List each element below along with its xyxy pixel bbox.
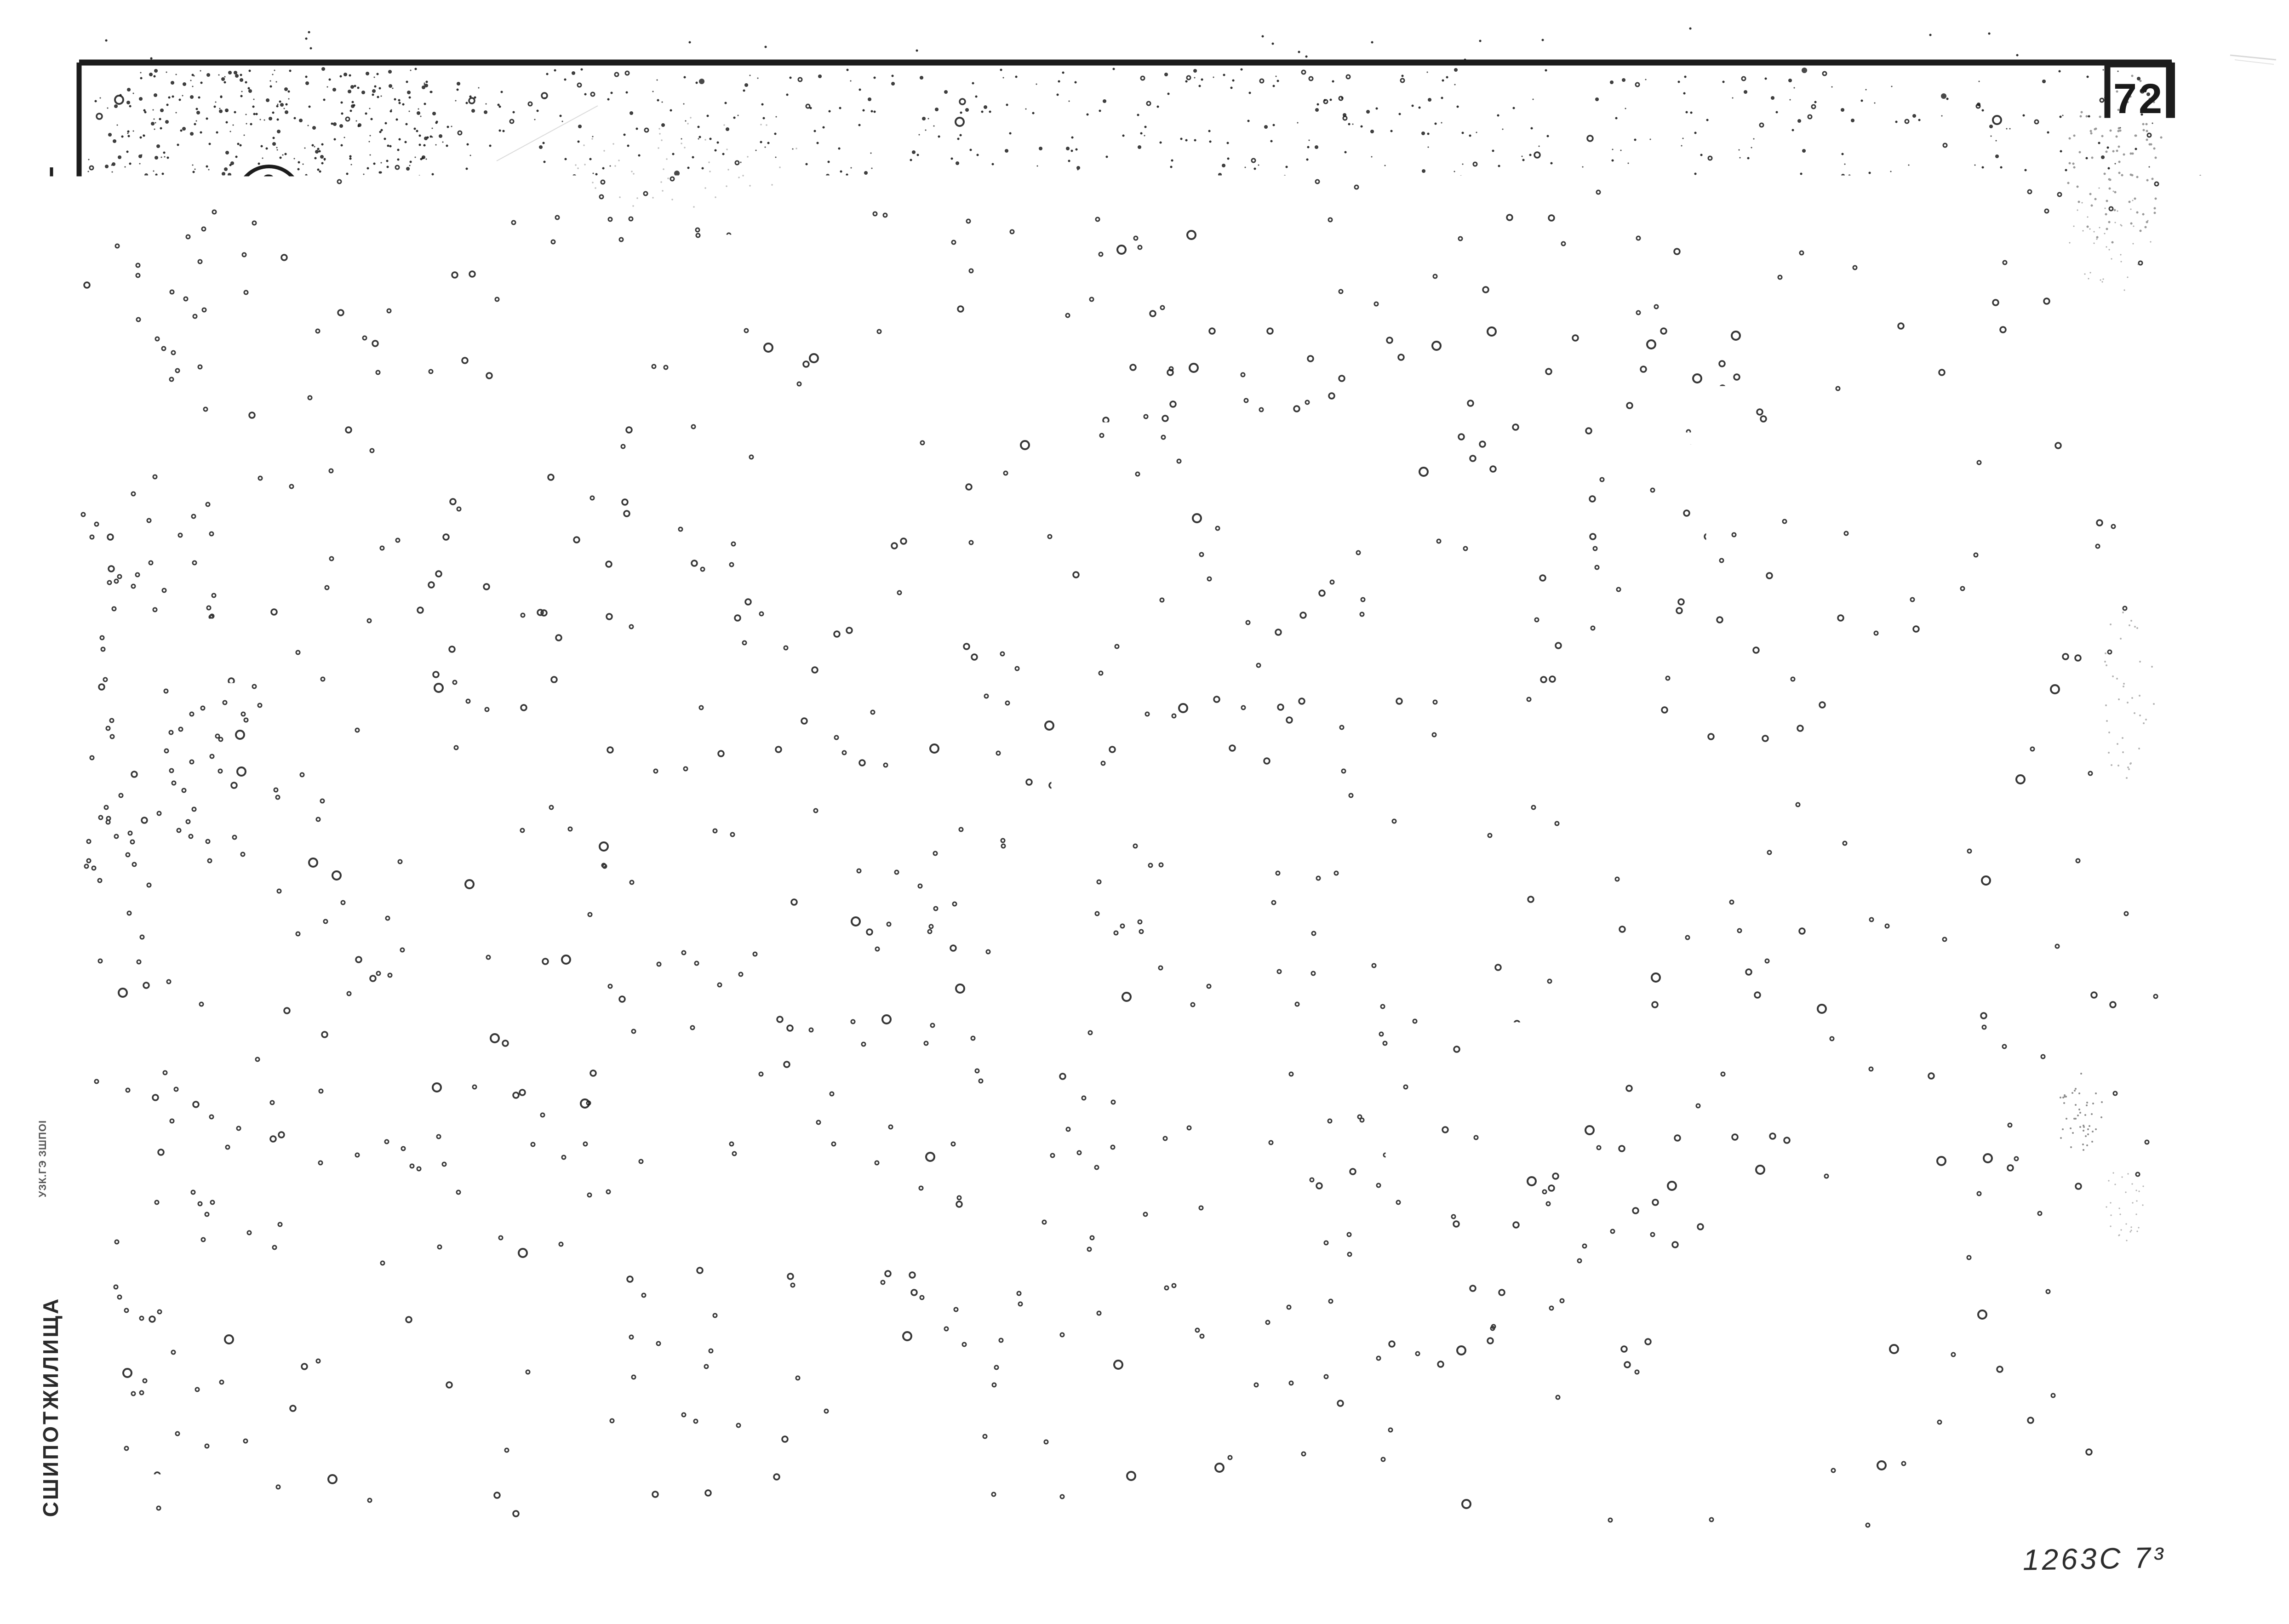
svg-text:1: 1 xyxy=(1995,1231,2008,1255)
svg-text:МН4*: МН4* xyxy=(1802,1202,1860,1226)
svg-text:КН38: КН38 xyxy=(1686,676,1748,703)
svg-text:ПКН168: ПКН168 xyxy=(647,703,741,730)
strip signature 2 xyxy=(64,1023,74,1081)
section 1-1 tall end piece 275 xyxy=(1239,934,1244,1005)
svg-text:10: 10 xyxy=(1906,854,1931,879)
svg-text:КН138: КН138 xyxy=(1512,268,1589,294)
page border frame xyxy=(79,60,2172,66)
position circle 3/31 xyxy=(238,166,300,229)
dim 5780 sec2 xyxy=(466,1381,1268,1384)
hidden edge dashed bottom xyxy=(372,641,802,644)
plan right edge xyxy=(1359,277,1363,671)
svg-text:КН142-1: КН142-1 xyxy=(1786,661,1877,686)
svg-text:3: 3 xyxy=(262,170,276,197)
svg-text:КН142-1: КН142-1 xyxy=(1053,889,1152,916)
plan bottom chords xyxy=(320,652,1361,657)
svg-text:31: 31 xyxy=(255,203,283,230)
svg-text:КН13: КН13 xyxy=(1508,1227,1570,1254)
svg-text:400: 400 xyxy=(925,497,971,526)
mesh break squiggle bottom xyxy=(658,635,717,740)
svg-text:16: 16 xyxy=(1528,1038,1556,1065)
svg-text:МН1: МН1 xyxy=(1807,1163,1855,1188)
svg-text:2270: 2270 xyxy=(1041,1305,1100,1332)
svg-text:3: 3 xyxy=(1912,507,1925,531)
svg-text:СЕРИЯ: СЕРИЯ xyxy=(2035,1437,2133,1459)
svg-text:15: 15 xyxy=(1335,677,1358,701)
svg-text:3: 3 xyxy=(1995,700,2008,724)
svg-text:1: 1 xyxy=(1912,932,1925,956)
svg-text:8: 8 xyxy=(1995,738,2008,763)
svg-text:КН138: КН138 xyxy=(1679,264,1755,291)
svg-text:КН12: КН12 xyxy=(1503,584,1565,611)
svg-text:ПКН168: ПКН168 xyxy=(1788,738,1874,763)
svg-text:КН16: КН16 xyxy=(1516,311,1579,337)
svg-text:КН13: КН13 xyxy=(1510,979,1572,1006)
svg-text:КН3: КН3 xyxy=(1131,583,1179,610)
svg-text:2: 2 xyxy=(1912,468,1925,492)
svg-text:КН38: КН38 xyxy=(841,701,903,727)
svg-text:1: 1 xyxy=(1995,314,2008,338)
svg-text:ПСН1: ПСН1 xyxy=(252,511,320,538)
section 4-4 top hook xyxy=(1623,932,1644,951)
svg-text:4: 4 xyxy=(1912,1086,1925,1110)
svg-text:1972: 1972 xyxy=(87,1502,162,1536)
svg-text:1: 1 xyxy=(1912,738,1925,763)
svg-text:АН2: АН2 xyxy=(1301,358,1352,385)
title block frame xyxy=(79,1424,2172,1429)
position circle 19/44 xyxy=(456,1161,522,1227)
svg-text:ТН33: ТН33 xyxy=(1803,854,1860,879)
svg-text:СШИПОТЖИЛИЩА: СШИПОТЖИЛИЩА xyxy=(39,1297,63,1517)
svg-text:145: 145 xyxy=(1245,1035,1282,1058)
svg-text:16: 16 xyxy=(1533,381,1561,407)
strip signature 1 xyxy=(64,656,74,731)
svg-text:720: 720 xyxy=(397,1306,441,1333)
svg-text:18: 18 xyxy=(1528,1157,1556,1184)
svg-text:ШАГ 300: ШАГ 300 xyxy=(666,922,743,941)
svg-text:КН13: КН13 xyxy=(560,463,622,489)
svg-text:400: 400 xyxy=(635,501,681,530)
svg-text:1370: 1370 xyxy=(592,1304,651,1332)
dim 1845 right xyxy=(1356,654,1367,665)
svg-text:44: 44 xyxy=(1528,1071,1556,1098)
svg-text:АН2: АН2 xyxy=(293,1030,343,1057)
plan: axis dash line xyxy=(322,290,1389,292)
svg-text:ТН45: ТН45 xyxy=(1803,893,1860,917)
panel X-braced left block xyxy=(366,318,477,658)
position circle 16/44 sec4 xyxy=(1509,1033,1575,1099)
svg-text:2: 2 xyxy=(1450,388,1476,437)
svg-text:13: 13 xyxy=(1988,854,2014,879)
svg-text:1: 1 xyxy=(1995,352,2008,377)
svg-text:АН1: АН1 xyxy=(1359,1026,1409,1053)
svg-text:3: 3 xyxy=(977,754,1001,800)
svg-text:КН12: КН12 xyxy=(960,458,1022,485)
svg-text:дить по опалубочному чер-: дить по опалубочному чер- xyxy=(1747,1292,2157,1317)
svg-text:ТК: ТК xyxy=(98,1435,152,1477)
svg-text:6: 6 xyxy=(1995,661,2008,686)
svg-text:6645: 6645 xyxy=(828,794,893,823)
svg-text:550: 550 xyxy=(1276,423,1302,465)
lower notch box right xyxy=(1070,575,1074,654)
svg-text:КН1: КН1 xyxy=(1034,410,1082,437)
svg-text:2: 2 xyxy=(1912,623,1925,647)
svg-text:Е.ЧУКАВИНА: Е.ЧУКАВИНА xyxy=(56,887,71,982)
hidden edge dashed top xyxy=(372,326,800,329)
svg-text:1: 1 xyxy=(1912,545,1925,570)
svg-text:400: 400 xyxy=(511,501,557,530)
svg-text:3: 3 xyxy=(962,194,986,240)
section 1-1 left end anchor xyxy=(436,953,441,1011)
svg-text:550: 550 xyxy=(1276,507,1302,549)
plan: top mesh band xyxy=(322,305,1389,311)
dim 330 sec3 xyxy=(1597,729,1657,732)
svg-text:4: 4 xyxy=(579,756,603,802)
svg-text:34: 34 xyxy=(1906,777,1931,801)
svg-text:140: 140 xyxy=(438,1038,461,1073)
svg-text:КН10: КН10 xyxy=(1130,527,1192,554)
svg-text:КН1: КН1 xyxy=(298,1284,346,1310)
svg-text:1: 1 xyxy=(1912,700,1925,724)
dim 6645 bottom xyxy=(464,826,1283,828)
svg-text:3-3: 3-3 xyxy=(1602,151,1656,188)
svg-text:3: 3 xyxy=(1912,1047,1925,1072)
svg-text:4: 4 xyxy=(1912,893,1925,917)
svg-text:1263С 7³: 1263С 7³ xyxy=(2022,1541,2166,1576)
svg-text:1: 1 xyxy=(1912,661,1925,686)
opening 2 xyxy=(887,360,893,575)
svg-text:ГЛ.СПЕЦ: ГЛ.СПЕЦ xyxy=(37,528,48,576)
svg-text:ПКН67: ПКН67 xyxy=(609,217,690,244)
svg-text:5: 5 xyxy=(1995,623,2008,647)
svg-text:11: 11 xyxy=(1989,1125,2014,1149)
page number box 72 xyxy=(2107,64,2169,128)
section 2-2 left dashed anchor box xyxy=(379,1234,466,1282)
svg-text:Панели группы НР2 длиной 6: Панели группы НР2 длиной 6.0 и более, то… xyxy=(222,1444,1335,1476)
svg-text:ТН1: ТН1 xyxy=(1688,378,1736,405)
svg-text:1: 1 xyxy=(1995,429,2008,454)
svg-text:18: 18 xyxy=(1531,506,1559,533)
svg-text:330: 330 xyxy=(1611,1344,1652,1370)
svg-text:670: 670 xyxy=(834,1308,878,1335)
dim 2860 vertical xyxy=(266,276,269,671)
svg-text:КН138: КН138 xyxy=(1687,906,1763,932)
svg-text:ТН1: ТН1 xyxy=(1688,1031,1735,1058)
svg-text:10: 10 xyxy=(1988,932,2014,956)
svg-text:ПКН67: ПКН67 xyxy=(1795,700,1868,724)
svg-text:12: 12 xyxy=(1988,1202,2014,1226)
svg-text:КН14: КН14 xyxy=(550,357,612,383)
section 3-3 bar xyxy=(1608,298,1611,659)
left stamp strip xyxy=(50,167,53,1544)
svg-text:АНР2-68.29.4-32б: АНР2-68.29.4-32б xyxy=(729,142,1051,191)
section 1-1 cross ticks xyxy=(475,953,478,1011)
svg-text:330: 330 xyxy=(1606,700,1647,726)
position circle 16/44 sec3 xyxy=(1516,377,1578,440)
svg-text:ТН33: ТН33 xyxy=(1253,591,1315,618)
section 3-3 rebar dots xyxy=(1611,321,1617,328)
svg-text:ПН6: ПН6 xyxy=(1808,970,1854,995)
svg-text:КН1: КН1 xyxy=(1683,426,1731,452)
svg-text:ПСН1: ПСН1 xyxy=(329,1150,397,1177)
dim 550/550 right xyxy=(1313,360,1315,612)
svg-text:АРМАТУР-: АРМАТУР- xyxy=(1773,216,1888,240)
svg-text:1: 1 xyxy=(1995,468,2008,492)
dim 40 xyxy=(339,625,341,658)
svg-text:УЗК.ГЭ ЗШПОІ: УЗК.ГЭ ЗШПОІ xyxy=(37,835,48,912)
svg-text:2: 2 xyxy=(1912,816,1925,840)
svg-text:4: 4 xyxy=(558,159,582,205)
svg-text:11: 11 xyxy=(1989,1086,2014,1110)
svg-text:АН5: АН5 xyxy=(1004,594,1054,621)
svg-text:АН1: АН1 xyxy=(1320,209,1370,235)
svg-text:КН14: КН14 xyxy=(1803,507,1860,531)
svg-text:АН2: АН2 xyxy=(1808,1047,1854,1072)
svg-text:КН10: КН10 xyxy=(1049,1174,1111,1201)
section 4-4 bottom hook xyxy=(1602,1322,1623,1346)
svg-text:КН10: КН10 xyxy=(1803,391,1860,415)
svg-text:КН14: КН14 xyxy=(931,1174,993,1201)
svg-text:Лист: Лист xyxy=(2106,1496,2149,1515)
svg-text:2: 2 xyxy=(1995,584,2008,608)
svg-text:1: 1 xyxy=(1448,256,1474,305)
svg-text:19: 19 xyxy=(475,1166,503,1193)
svg-text:2-2: 2-2 xyxy=(839,1129,892,1166)
svg-text:РУК ГР.: РУК ГР. xyxy=(56,794,71,846)
section 2-2 top dashes xyxy=(695,1229,717,1233)
svg-text:ТН21: ТН21 xyxy=(1803,816,1860,840)
svg-text:685: 685 xyxy=(402,749,451,778)
svg-text:12: 12 xyxy=(1988,1163,2014,1188)
svg-text:4-4: 4-4 xyxy=(1608,835,1661,872)
svg-text:КН15: КН15 xyxy=(1803,1231,1860,1255)
svg-text:КН138: КН138 xyxy=(1501,906,1578,932)
parts table АРМАТУРНОЕ ИЗДЕЛИЕ xyxy=(1774,199,2146,1255)
svg-text:1: 1 xyxy=(1912,1231,1925,1255)
svg-text:КН3: КН3 xyxy=(1809,352,1853,377)
svg-text:МН1: МН1 xyxy=(258,393,311,419)
svg-text:МН1: МН1 xyxy=(290,999,343,1025)
svg-text:11: 11 xyxy=(1989,1047,2014,1072)
lower mesh ticks xyxy=(486,658,489,710)
svg-text:ПСН1: ПСН1 xyxy=(293,886,361,913)
svg-text:ПСН1: ПСН1 xyxy=(1800,932,1862,956)
svg-text:7: 7 xyxy=(1912,314,1925,338)
svg-text:КН142-1: КН142-1 xyxy=(1642,209,1742,235)
svg-text:40: 40 xyxy=(310,632,333,656)
right pier vertical xyxy=(1248,305,1253,660)
svg-text:КН38: КН38 xyxy=(1677,1340,1739,1367)
section 1-1 right end anchor xyxy=(1297,957,1301,1014)
section 1-1 bar chords xyxy=(438,963,1299,967)
svg-text:13: 13 xyxy=(1988,777,2014,801)
dim 180 right xyxy=(1356,270,1367,281)
svg-text:180: 180 xyxy=(1328,269,1354,310)
plan left edge xyxy=(323,298,326,661)
svg-text:АН5: АН5 xyxy=(1808,1086,1854,1110)
svg-text:ПН6: ПН6 xyxy=(730,214,780,241)
svg-text:АН2: АН2 xyxy=(258,430,308,457)
svg-text:175: 175 xyxy=(309,286,332,321)
svg-text:1-7: 1-7 xyxy=(2022,1514,2059,1540)
svg-text:1845: 1845 xyxy=(1325,404,1355,469)
svg-text:АН2: АН2 xyxy=(494,185,545,212)
svg-text:КН16: КН16 xyxy=(1803,545,1860,570)
section 4-4 rebar dots xyxy=(1614,975,1620,982)
dim 175 xyxy=(339,277,341,320)
svg-text:НОЕ: НОЕ xyxy=(1797,244,1846,268)
svg-text:ИЗДЕЛИЕ: ИЗДЕЛИЕ xyxy=(1778,277,1886,301)
svg-text:КН12: КН12 xyxy=(1803,429,1860,454)
svg-text:1: 1 xyxy=(1912,352,1925,377)
svg-text:АН5: АН5 xyxy=(613,596,664,623)
svg-text:2: 2 xyxy=(170,391,193,435)
svg-text:1: 1 xyxy=(1912,429,1925,454)
mid horizontal bar xyxy=(366,443,1361,447)
svg-text:5780: 5780 xyxy=(834,1349,899,1379)
svg-text:44: 44 xyxy=(475,1199,503,1226)
svg-text:КН1: КН1 xyxy=(1688,1084,1735,1111)
svg-text:72: 72 xyxy=(2113,75,2164,122)
svg-text:4: 4 xyxy=(259,733,273,760)
svg-text:13: 13 xyxy=(1988,816,2014,840)
svg-text:1: 1 xyxy=(1912,1009,1925,1033)
svg-text:1: 1 xyxy=(1912,391,1925,415)
svg-text:ТН21: ТН21 xyxy=(1682,1148,1744,1174)
svg-text:Выпуск: Выпуск xyxy=(2060,279,2139,301)
svg-text:ТН21: ТН21 xyxy=(1676,496,1738,522)
section 2-2 verticals xyxy=(464,1237,469,1306)
hidden dash near АН2 xyxy=(1214,415,1264,418)
section 1-1 dims xyxy=(438,1060,1349,1063)
svg-text:405: 405 xyxy=(1206,1306,1250,1333)
svg-text:660: 660 xyxy=(733,1306,777,1333)
dim 635 top xyxy=(377,215,488,217)
svg-text:КН16: КН16 xyxy=(1070,347,1133,373)
svg-text:КН1: КН1 xyxy=(1305,1277,1353,1304)
svg-text:33: 33 xyxy=(252,766,280,793)
mesh vertical bars xyxy=(326,299,331,351)
svg-text:635: 635 xyxy=(406,184,454,214)
dim 685 bottom xyxy=(368,781,488,783)
svg-text:1-1: 1-1 xyxy=(822,843,875,880)
mesh break squiggle left xyxy=(711,294,767,398)
svg-text:65: 65 xyxy=(2113,1515,2141,1541)
svg-text:13: 13 xyxy=(1988,893,2014,917)
svg-text:1: 1 xyxy=(1995,391,2008,415)
svg-text:тежу фасада панели.: тежу фасада панели. xyxy=(1747,1324,2051,1350)
section 2-2 dim row xyxy=(373,1335,1268,1338)
opening 1 xyxy=(515,360,521,575)
svg-text:725: 725 xyxy=(1326,594,1353,637)
svg-text:11: 11 xyxy=(1989,970,2014,995)
svg-text:КН38: КН38 xyxy=(1803,584,1860,608)
dim 725 right xyxy=(1356,607,1366,617)
svg-text:44: 44 xyxy=(1531,539,1559,566)
svg-text:КН15: КН15 xyxy=(1101,467,1163,494)
opening edge extensions to bottom chord xyxy=(517,575,520,654)
section 4-4 bar xyxy=(1610,953,1614,1320)
svg-text:1: 1 xyxy=(178,252,201,297)
section 3-3 top hook xyxy=(1614,277,1637,298)
svg-text:1: 1 xyxy=(1912,584,1925,608)
svg-text:ПКН67: ПКН67 xyxy=(1668,876,1748,903)
section 2-2 bar chords xyxy=(466,1243,1259,1247)
svg-text:44: 44 xyxy=(1533,414,1561,440)
svg-text:1: 1 xyxy=(1995,507,2008,531)
svg-text:405: 405 xyxy=(477,1306,521,1333)
svg-text:ШАТИНСКАЯ: ШАТИНСКАЯ xyxy=(53,535,72,646)
svg-text:АН6: АН6 xyxy=(1174,697,1225,724)
svg-text:275: 275 xyxy=(1199,889,1240,915)
svg-text:ПН6: ПН6 xyxy=(547,219,598,246)
svg-text:2: 2 xyxy=(1912,1163,1925,1188)
svg-text:1.132-2: 1.132-2 xyxy=(2037,1458,2134,1487)
dim 15 right xyxy=(1336,667,1390,669)
svg-text:ТН1: ТН1 xyxy=(1809,777,1853,801)
svg-text:ТН1: ТН1 xyxy=(674,889,722,916)
svg-text:Кол.: Кол. xyxy=(1895,277,1941,301)
svg-text:ИНЖ.: ИНЖ. xyxy=(55,1131,71,1173)
svg-text:АН6: АН6 xyxy=(1808,1125,1854,1149)
svg-text:5780: 5780 xyxy=(832,1030,897,1060)
position circle 18/44 sec4 xyxy=(1509,1152,1575,1218)
svg-text:* Установку МН4 произво-: * Установку МН4 произво- xyxy=(1742,1259,2158,1285)
svg-text:АН1: АН1 xyxy=(1808,1009,1854,1033)
svg-text:КН13: КН13 xyxy=(1803,468,1860,492)
svg-text:ПН6: ПН6 xyxy=(1140,214,1190,241)
svg-text:1: 1 xyxy=(1995,545,2008,570)
svg-text:2-3: 2-3 xyxy=(2074,748,2118,811)
svg-text:Выпуск: Выпуск xyxy=(2006,1495,2074,1514)
position circle 18/44 sec3 xyxy=(1514,503,1576,565)
svg-text:44: 44 xyxy=(1528,1190,1556,1217)
svg-text:КН3: КН3 xyxy=(1141,1176,1189,1203)
svg-text:4: 4 xyxy=(1912,970,1925,995)
svg-text:2: 2 xyxy=(1912,1125,1925,1149)
svg-text:А Р М А Т У Р Н Ы Й Б Л О: А Р М А Т У Р Н Ы Й Б Л О К АНР2-68.29.4… xyxy=(240,1504,1245,1536)
svg-text:11: 11 xyxy=(1989,1009,2014,1033)
svg-text:ТН45: ТН45 xyxy=(717,352,779,379)
svg-text:ПН6: ПН6 xyxy=(903,222,953,248)
svg-text:Лист: Лист xyxy=(1974,277,2029,301)
svg-text:КН1: КН1 xyxy=(1809,314,1853,338)
svg-text:ПКН168: ПКН168 xyxy=(1492,1340,1586,1367)
position circle 4/33 xyxy=(235,730,297,792)
svg-text:1: 1 xyxy=(1912,1202,1925,1226)
dim 330 sec4 xyxy=(1598,1373,1661,1375)
plan: top edge line xyxy=(320,276,1390,279)
svg-text:УЗК.ГЭ ЗШПОІ: УЗК.ГЭ ЗШПОІ xyxy=(37,1120,48,1197)
svg-text:КН138: КН138 xyxy=(1796,623,1866,647)
svg-text:400: 400 xyxy=(1049,497,1095,526)
